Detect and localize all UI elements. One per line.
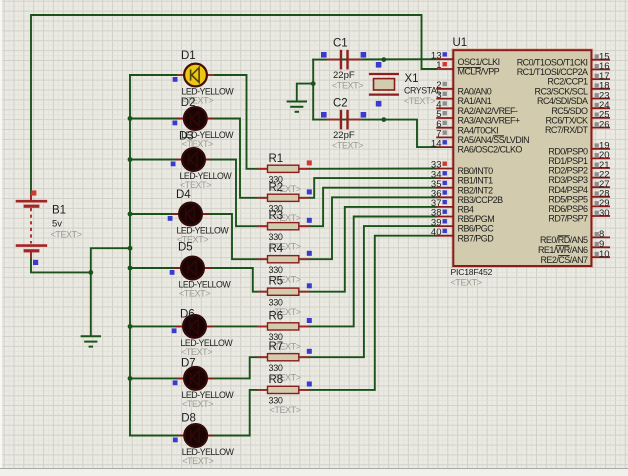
pin number 1: [436, 60, 441, 71]
pin 26 stub (RC7/RX/DT): [591, 127, 610, 129]
wire R5 to pin 37 (RB4): [299, 207, 436, 292]
pin 28 stub (RD5/PSP5): [591, 196, 610, 198]
node junction bus-D3: [128, 157, 133, 162]
marker pin 13: [443, 52, 447, 56]
svg-text:<TEXT>: <TEXT>: [179, 289, 210, 299]
marker pin 20: [595, 153, 599, 157]
pin name RB4: [458, 205, 474, 215]
wire ground stub below battery: [90, 272, 92, 334]
value LED-YELLOW of D4: [177, 226, 230, 236]
wire R3 to pin 35 (RB2): [299, 188, 436, 227]
svg-text:40: 40: [431, 227, 442, 238]
svg-text:RB6/PGC: RB6/PGC: [458, 224, 495, 234]
wire capacitor left bus: [312, 60, 314, 120]
marker pin 30: [595, 211, 599, 215]
svg-text:R2: R2: [269, 182, 284, 194]
marker pin 29: [595, 201, 599, 205]
crystal X1: [369, 74, 399, 95]
marker pin 21: [595, 163, 599, 167]
marker pin 1: [443, 62, 447, 66]
marker C1 left (blue): [321, 52, 327, 58]
pin 33 stub (RB0/INT0): [436, 168, 453, 170]
svg-text:RE0/RD/AN5: RE0/RD/AN5: [540, 235, 588, 245]
capacitor C1 22pF: [327, 50, 362, 70]
property TEXT of R7: [270, 373, 301, 383]
pin 24 stub (RC5/SDO): [591, 107, 610, 109]
pin 14 stub (RA6/OSC2/CLKO): [436, 146, 453, 148]
pin number 14: [431, 138, 442, 149]
pin 34 stub (RB1/INT1): [436, 177, 453, 179]
pin 29 stub (RD6/PSP6): [591, 205, 610, 207]
wire D5 anode to R5: [204, 268, 268, 292]
marker D2 (blue): [173, 121, 178, 126]
pin number 23: [599, 90, 610, 101]
wire VDD rail: battery + up, across top, down to pin 1 (MCLR): [31, 15, 436, 199]
overline SS (pin 7): [493, 135, 504, 137]
property TEXT of D1: [182, 96, 213, 106]
marker pin 38: [443, 210, 447, 214]
pin number 30: [599, 208, 610, 219]
value LED-YELLOW of D3: [180, 171, 233, 181]
svg-text:C1: C1: [333, 37, 348, 49]
resistor R6 330: [257, 323, 310, 330]
svg-text:330: 330: [269, 396, 283, 406]
pin 37 stub (RB4): [436, 206, 453, 208]
svg-text:330: 330: [269, 298, 283, 308]
pin name RC7/RX/DT: [545, 125, 589, 135]
pin number 37: [431, 198, 442, 209]
pin 35 stub (RB2/INT2): [436, 187, 453, 189]
svg-text:RC0/T1OSO/T1CKI: RC0/T1OSO/T1CKI: [517, 57, 588, 67]
pin name RD1/PSP1: [548, 156, 588, 166]
resistor R2 330: [257, 194, 310, 201]
pin 36 stub (RB3/CCP2B): [436, 196, 453, 198]
value LED-YELLOW of D8: [182, 447, 235, 457]
pin name RC3/SCK/SCL: [535, 86, 589, 96]
wire bus to D1 cathode: [130, 74, 184, 76]
svg-text:<TEXT>: <TEXT>: [270, 405, 301, 415]
node junction OSC1: [381, 57, 386, 62]
marker pin 14: [443, 140, 447, 144]
marker pin 28: [595, 191, 599, 195]
svg-text:22pF: 22pF: [333, 70, 355, 81]
pin name RA0/AN0: [458, 86, 492, 96]
wire D7 anode to R7: [207, 357, 268, 378]
pin number 33: [431, 160, 442, 171]
pin number 8: [599, 229, 604, 240]
svg-text:D8: D8: [181, 413, 196, 425]
marker pin 15: [595, 54, 599, 58]
svg-text:330: 330: [269, 363, 283, 373]
svg-text:RD3/PSP3: RD3/PSP3: [548, 175, 588, 185]
pin name RD2/PSP2: [548, 166, 588, 176]
pin name RA4/T0CKI: [458, 125, 499, 135]
label R5: [269, 276, 284, 288]
value 22pF of C1: [333, 70, 355, 81]
marker D6 (blue): [172, 328, 177, 333]
pin name OSC1/CLKI: [458, 57, 500, 67]
label R3: [269, 210, 284, 222]
node junction bus-D2: [128, 116, 133, 121]
pin name RD3/PSP3: [548, 175, 588, 185]
marker D1 (blue): [173, 77, 178, 82]
value 330 of R4: [269, 265, 283, 275]
marker X1 bottom (blue): [376, 101, 382, 107]
label D6: [180, 308, 195, 320]
pin number 17: [599, 71, 610, 82]
label C2: [333, 97, 348, 109]
pin name RD7/PSP7: [548, 214, 588, 224]
value 330 of R2: [269, 204, 283, 214]
LED D4 LED-YELLOW: [172, 203, 209, 226]
pin name RD4/PSP4: [548, 185, 588, 195]
marker R7: [307, 349, 312, 354]
wire OSC2 to pin 14: [384, 120, 436, 148]
svg-text:R4: R4: [269, 243, 284, 255]
svg-text:RB0/INT0: RB0/INT0: [458, 166, 494, 176]
pin name RE2/CS/AN7: [540, 255, 588, 265]
value LED-YELLOW of D5: [179, 280, 232, 290]
marker pin 35: [443, 181, 447, 185]
marker R4: [307, 251, 312, 256]
svg-text:R8: R8: [269, 374, 284, 386]
svg-text:U1: U1: [453, 37, 468, 49]
label D8: [181, 413, 196, 425]
overline MCLR (pin 1): [457, 66, 481, 68]
wire R7 to pin 39 (RB6): [299, 226, 436, 357]
marker D8 (blue): [173, 438, 178, 443]
marker D4 (blue): [168, 216, 173, 221]
svg-text:RA6/OSC2/CLKO: RA6/OSC2/CLKO: [458, 145, 523, 155]
svg-text:B1: B1: [52, 204, 66, 216]
wire D8 anode to R8: [207, 390, 267, 436]
overline RD (pin 8): [558, 235, 570, 237]
pin name RC0/T1OSO/T1CKI: [517, 57, 588, 67]
svg-text:<TEXT>: <TEXT>: [182, 456, 213, 466]
property TEXT of D7: [182, 399, 213, 409]
value 330 of R3: [269, 232, 283, 242]
overline WR (pin 9): [556, 245, 570, 247]
pin number 7: [436, 129, 441, 140]
pin 15 stub (RC0/T1OSO/T1CKI): [591, 59, 610, 61]
svg-text:RA1/AN1: RA1/AN1: [458, 96, 492, 106]
marker R1: [307, 160, 312, 165]
label D5: [178, 241, 193, 253]
value 330 of R1: [269, 175, 283, 185]
value 22pF of C2: [333, 130, 355, 141]
value PIC18F452 of U1: [451, 267, 493, 277]
pin 20 stub (RD1/PSP1): [591, 157, 610, 159]
svg-text:RC3/SCK/SCL: RC3/SCK/SCL: [535, 86, 589, 96]
wire ground junction up and right to cathode bus: [91, 248, 130, 272]
property TEXT of R3: [270, 242, 301, 252]
svg-text:30: 30: [599, 208, 610, 219]
property TEXT of R1: [270, 184, 301, 194]
svg-text:RC5/SDO: RC5/SDO: [551, 106, 588, 116]
svg-text:<TEXT>: <TEXT>: [451, 278, 482, 288]
svg-text:RD1/PSP1: RD1/PSP1: [548, 156, 588, 166]
pin number 21: [599, 160, 610, 171]
pin number 25: [599, 110, 610, 121]
op-amp U1 body (PIC18F452 chip outline): [453, 50, 591, 266]
marker pin 36: [443, 190, 447, 194]
wire bus to D3 cathode: [130, 159, 182, 161]
pin number 6: [436, 119, 441, 130]
property TEXT of B1: [51, 230, 82, 240]
wire D1 anode to R1: [207, 75, 268, 169]
svg-text:D4: D4: [176, 189, 191, 201]
resistor R5 330: [257, 288, 310, 295]
pin 1 stub (MCLR/VPP): [436, 68, 453, 70]
svg-text:330: 330: [269, 232, 283, 242]
svg-text:RB7/PGD: RB7/PGD: [458, 233, 495, 243]
node junction bus-battery feed: [128, 246, 133, 251]
label C1: [333, 37, 348, 49]
property TEXT of U1: [451, 278, 482, 288]
pin name RD0/PSP0: [548, 146, 588, 156]
pin 38 stub (RB5/PGM): [436, 216, 453, 218]
marker pin 3: [443, 92, 447, 96]
label R4: [269, 243, 284, 255]
pin 5 stub (RA3/AN3/VREF+): [436, 117, 453, 119]
value LED-YELLOW of D2: [181, 130, 234, 140]
node junction cap-bus ground tap: [311, 81, 316, 86]
pin name RE0/RD/AN5: [540, 235, 588, 245]
marker pin 22: [595, 172, 599, 176]
pin name RC5/SDO: [551, 106, 588, 116]
pin 30 stub (RD7/PSP7): [591, 215, 610, 217]
marker pin 25: [595, 113, 599, 117]
marker pin 9: [595, 242, 599, 246]
value 330 of R5: [269, 298, 283, 308]
wire R1 to pin 33 (RB0): [299, 168, 436, 170]
pin 23 stub (RC4/SDI/SDA): [591, 98, 610, 100]
marker battery minus (blue): [33, 260, 38, 265]
wire bus to D6 cathode: [130, 325, 183, 327]
resistor R1 330: [257, 165, 310, 172]
pin number 29: [599, 198, 610, 209]
pin 9 stub (RE1/WR/AN6): [591, 246, 610, 248]
svg-text:RB3/CCP2B: RB3/CCP2B: [458, 195, 504, 205]
pin 40 stub (RB7/PGD): [436, 235, 453, 237]
pin 19 stub (RD0/PSP0): [591, 148, 610, 150]
svg-text:D2: D2: [181, 97, 196, 109]
pin name RC4/SDI/SDA: [537, 96, 588, 106]
svg-text:RD0/PSP0: RD0/PSP0: [548, 146, 588, 156]
svg-text:X1: X1: [405, 73, 419, 85]
property TEXT of D5: [179, 289, 210, 299]
svg-text:22pF: 22pF: [333, 130, 355, 141]
pin 8 stub (RE0/RD/AN5): [591, 236, 610, 238]
marker pin 40: [443, 229, 447, 233]
marker pin 26: [595, 122, 599, 126]
marker D3 (blue): [171, 162, 176, 167]
property TEXT of X1: [404, 96, 435, 106]
svg-text:RA3/AN3/VREF+: RA3/AN3/VREF+: [458, 116, 520, 126]
svg-text:R3: R3: [269, 210, 284, 222]
label D4: [176, 189, 191, 201]
svg-text:<TEXT>: <TEXT>: [181, 347, 212, 357]
node junction OSC2: [381, 117, 386, 122]
node junction bus-D4: [128, 212, 133, 217]
svg-text:5v: 5v: [52, 219, 62, 230]
property TEXT of D3: [180, 180, 211, 190]
wire bus to D2 cathode: [130, 118, 184, 120]
property TEXT of R6: [270, 342, 301, 352]
pin 25 stub (RC6/TX/CK): [591, 117, 610, 119]
pin 6 stub (RA4/T0CKI): [436, 127, 453, 129]
pin name RD5/PSP5: [548, 194, 588, 204]
marker pin 33: [443, 162, 447, 166]
node junction bus-D5: [128, 266, 133, 271]
capacitor C2 22pF: [327, 110, 362, 130]
svg-text:R7: R7: [269, 341, 284, 353]
pin name RB6/PGC: [458, 224, 495, 234]
wire node OSC2: C2 row to junction: [313, 119, 384, 121]
pin number 38: [431, 208, 442, 219]
pin number 20: [599, 150, 610, 161]
property TEXT of D8: [182, 456, 213, 466]
label X1: [405, 73, 419, 85]
svg-text:R5: R5: [269, 276, 284, 288]
marker C2 left (blue): [321, 112, 327, 118]
label R6: [269, 310, 284, 322]
pin number 3: [436, 90, 441, 101]
wire R6 to pin 38 (RB5): [299, 217, 436, 327]
pin number 4: [436, 100, 441, 111]
marker pin 19: [595, 143, 599, 147]
pin number 39: [431, 217, 442, 228]
wire R8 to pin 40 (RB7): [299, 236, 436, 390]
marker pin 16: [595, 64, 599, 68]
LED D5 LED-YELLOW: [174, 257, 211, 280]
wire R4 to pin 36 (RB3): [299, 197, 436, 259]
pin 27 stub (RD4/PSP4): [591, 186, 610, 188]
svg-text:D5: D5: [178, 241, 193, 253]
svg-text:RD6/PSP6: RD6/PSP6: [548, 204, 588, 214]
pin 22 stub (RD3/PSP3): [591, 177, 610, 179]
pin number 9: [599, 239, 604, 250]
LED D3 LED-YELLOW: [175, 148, 212, 171]
wire battery - to ground junction: [31, 253, 91, 273]
LED D6 LED-YELLOW: [176, 315, 213, 338]
marker R5: [307, 283, 312, 288]
wire bus to D4 cathode: [130, 213, 179, 215]
pin name RC6/TX/CK: [545, 116, 588, 126]
svg-text:RB2/INT2: RB2/INT2: [458, 185, 494, 195]
label R2: [269, 182, 284, 194]
pin number 15: [599, 52, 610, 63]
pin name RA2/AN2/VREF-: [458, 106, 518, 116]
value 5v of B1: [52, 219, 62, 230]
marker pin 2: [443, 82, 447, 86]
wire bus to D7 cathode: [130, 377, 184, 379]
svg-text:<TEXT>: <TEXT>: [51, 230, 82, 240]
svg-text:RA4/T0CKI: RA4/T0CKI: [458, 125, 499, 135]
svg-text:RC2/CCP1: RC2/CCP1: [547, 77, 588, 87]
svg-text:C2: C2: [333, 97, 348, 109]
pin name RB0/INT0: [458, 166, 494, 176]
pin 18 stub (RC3/SCK/SCL): [591, 88, 610, 90]
marker pin 39: [443, 219, 447, 223]
marker pin 10: [595, 252, 599, 256]
property TEXT of D4: [177, 235, 208, 245]
pin name RA5/AN4/SS/LVDIN: [458, 135, 530, 145]
pin name RB2/INT2: [458, 185, 494, 195]
svg-text:330: 330: [269, 265, 283, 275]
node junction bus-D7: [128, 376, 133, 381]
svg-text:R6: R6: [269, 310, 284, 322]
pin number 35: [431, 179, 442, 190]
property TEXT of C1: [332, 81, 363, 91]
wire bus to D8 cathode: [130, 435, 184, 437]
overline CS (pin 10): [558, 255, 570, 257]
marker pin 6: [443, 121, 447, 125]
pin name RE1/WR/AN6: [538, 245, 588, 255]
pin name RB5/PGM: [458, 214, 495, 224]
pin 21 stub (RD2/PSP2): [591, 167, 610, 169]
svg-text:RA2/AN2/VREF-: RA2/AN2/VREF-: [458, 106, 518, 116]
label R7: [269, 341, 284, 353]
svg-text:RB4: RB4: [458, 205, 474, 215]
resistor R4 330: [257, 256, 310, 263]
pin 13 stub (OSC1/CLKI): [436, 58, 453, 60]
svg-text:D1: D1: [181, 50, 196, 62]
pin number 34: [431, 169, 442, 180]
pin 4 stub (RA2/AN2/VREF-): [436, 107, 453, 109]
svg-text:RA5/AN4/SS/LVDIN: RA5/AN4/SS/LVDIN: [458, 135, 530, 145]
node junction battery-ground: [88, 270, 93, 275]
marker R8: [307, 382, 312, 387]
svg-text:MCLR/VPP: MCLR/VPP: [458, 67, 500, 77]
wire LED cathode bus vertical: [129, 75, 131, 436]
LED D2 LED-YELLOW: [177, 107, 214, 130]
pin name RD6/PSP6: [548, 204, 588, 214]
resistor R3 330: [257, 223, 310, 230]
svg-text:RB1/INT1: RB1/INT1: [458, 176, 494, 186]
svg-text:RE1/WR/AN6: RE1/WR/AN6: [538, 245, 588, 255]
svg-text:<TEXT>: <TEXT>: [332, 81, 363, 91]
svg-text:RA0/AN0: RA0/AN0: [458, 86, 492, 96]
svg-text:<TEXT>: <TEXT>: [404, 96, 435, 106]
LED D7 LED-YELLOW: [177, 367, 214, 390]
resistor R8 330: [257, 386, 310, 393]
value LED-YELLOW of D6: [181, 338, 234, 348]
pin 2 stub (RA0/AN0): [436, 88, 453, 90]
svg-text:D3: D3: [179, 130, 194, 142]
svg-text:PIC18F452: PIC18F452: [451, 267, 493, 277]
pin number 13: [431, 50, 442, 61]
wire R2 to pin 34 (RB1): [299, 178, 436, 198]
svg-text:<TEXT>: <TEXT>: [182, 399, 213, 409]
label D7: [181, 358, 196, 370]
property TEXT of R8: [270, 405, 301, 415]
property TEXT of R5: [270, 307, 301, 317]
pin number 27: [599, 179, 610, 190]
pin name RB3/CCP2B: [458, 195, 504, 205]
label D1: [181, 50, 196, 62]
marker pin 4: [443, 101, 447, 105]
node junction bus-D6: [128, 324, 133, 329]
LED D8 LED-YELLOW: [177, 424, 214, 447]
svg-text:RD2/PSP2: RD2/PSP2: [548, 166, 588, 176]
pin number 40: [431, 227, 442, 238]
marker battery plus (red): [31, 190, 36, 195]
svg-text:10: 10: [599, 249, 610, 260]
wire bus to D5 cathode: [130, 267, 181, 269]
marker R2: [307, 189, 312, 194]
screen bottom band: [0, 468, 628, 476]
